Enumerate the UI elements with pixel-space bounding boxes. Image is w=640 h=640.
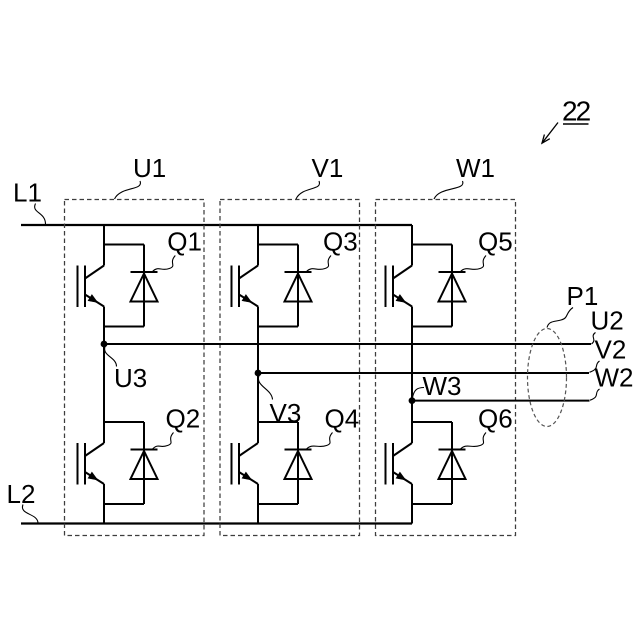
leader U1: [115, 181, 141, 199]
transistor Q4 (IGBT): [232, 443, 259, 485]
reference numeral 22 (underlined): [562, 96, 591, 127]
dashed box phase leg W1: [376, 200, 516, 536]
wire Q3 collector branch to diode cathode: [258, 244, 298, 246]
arrow leader pointing from 22 to circuit: [542, 123, 558, 144]
leader Q3: [307, 256, 332, 272]
wire Q2 emitter down to L2 rail: [103, 484, 105, 524]
node V3 (junction dot): [255, 370, 262, 377]
svg-text:U1: U1: [133, 153, 166, 183]
svg-text:U2: U2: [591, 306, 624, 336]
svg-text:Q2: Q2: [166, 404, 201, 434]
svg-text:W2: W2: [595, 363, 634, 393]
dashed box phase leg U1: [65, 200, 205, 536]
diode antiparallel with Q3: [285, 245, 312, 327]
leader P1: [547, 308, 573, 328]
leader W3: [413, 388, 425, 398]
diode antiparallel with Q2: [131, 422, 158, 504]
wire Q6 emitter down to L2 rail: [411, 484, 413, 524]
wire Q4 emitter branch to diode anode: [258, 503, 298, 505]
leader L1: [35, 204, 46, 225]
wire output line W2: [412, 400, 590, 402]
diode antiparallel with Q5: [439, 245, 466, 327]
wire L1 rail to Q1 collector: [103, 225, 105, 266]
transistor Q3 (IGBT): [232, 266, 259, 308]
wire output line U2: [104, 343, 591, 345]
svg-text:22: 22: [562, 96, 591, 127]
leader Q6: [461, 433, 487, 450]
wire output line V2: [258, 372, 589, 374]
leader U2: [592, 333, 596, 345]
leader V1: [296, 181, 320, 199]
transistor Q5 (IGBT): [386, 266, 413, 308]
wire Q2 emitter branch to diode anode: [104, 503, 144, 505]
wire Q5 collector branch to diode cathode: [412, 244, 452, 246]
leader Q4: [307, 433, 333, 450]
wire Q6 collector branch to diode cathode: [412, 421, 452, 423]
svg-text:Q4: Q4: [325, 404, 360, 434]
wire Q1 emitter branch to diode anode: [104, 326, 144, 328]
wire Q4 collector branch to diode cathode: [258, 421, 298, 423]
wire Q5 emitter branch to diode anode: [412, 326, 452, 328]
wire L2 negative rail: [21, 522, 412, 524]
svg-text:V2: V2: [595, 335, 627, 365]
leader Q1: [153, 256, 176, 272]
svg-text:L2: L2: [7, 479, 36, 509]
wire Q2 collector branch to diode cathode: [104, 421, 144, 423]
svg-text:Q6: Q6: [478, 404, 513, 434]
wire L1 rail to Q5 collector: [411, 225, 413, 266]
diode antiparallel with Q6: [439, 422, 466, 504]
wire Q6 emitter branch to diode anode: [412, 503, 452, 505]
leader U3: [105, 347, 117, 367]
leader Q5: [461, 256, 487, 272]
wire Q1 emitter down to node U3: [103, 307, 105, 345]
wire node V3 down to Q4 collector: [257, 373, 259, 443]
node W3 (junction dot): [409, 397, 416, 404]
wire Q1 collector branch to diode cathode: [104, 244, 144, 246]
leader W1: [434, 181, 463, 199]
dashed box phase leg V1: [220, 200, 360, 536]
wire Q5 emitter down to node W3: [411, 307, 413, 401]
svg-text:Q5: Q5: [478, 227, 513, 257]
wire Q3 emitter branch to diode anode: [258, 326, 298, 328]
wire L1 positive rail: [21, 224, 412, 226]
wire node W3 down to Q6 collector: [411, 401, 413, 443]
leader V2: [590, 361, 600, 372]
leader W2: [590, 389, 600, 400]
svg-text:U3: U3: [114, 363, 147, 393]
wire node U3 down to Q2 collector: [103, 344, 105, 443]
transistor Q1 (IGBT): [78, 266, 105, 308]
leader V3: [258, 376, 272, 400]
svg-text:L1: L1: [13, 178, 42, 208]
transistor Q2 (IGBT): [78, 443, 105, 485]
node U3 (junction dot): [101, 341, 108, 348]
leader L2: [22, 505, 38, 524]
svg-text:V1: V1: [312, 153, 344, 183]
wire L1 rail to Q3 collector: [257, 225, 259, 266]
transistor Q6 (IGBT): [386, 443, 413, 485]
diode antiparallel with Q1: [131, 245, 158, 327]
wire Q4 emitter down to L2 rail: [257, 484, 259, 524]
svg-text:Q3: Q3: [323, 227, 358, 257]
connector P1 (dashed ellipse): [528, 329, 567, 427]
svg-text:W1: W1: [456, 153, 495, 183]
diode antiparallel with Q4: [285, 422, 312, 504]
svg-text:Q1: Q1: [167, 227, 202, 257]
leader Q2: [153, 433, 174, 450]
svg-text:V3: V3: [270, 398, 302, 428]
svg-text:W3: W3: [423, 371, 462, 401]
wire Q3 emitter down to node V3: [257, 307, 259, 374]
